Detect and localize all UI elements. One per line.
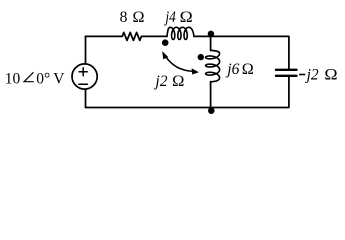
svg-text:j2: j2: [153, 73, 167, 90]
svg-text:j2: j2: [305, 67, 319, 84]
svg-text:j6: j6: [225, 61, 239, 78]
svg-text:Ω: Ω: [180, 9, 193, 26]
svg-text:Ω: Ω: [172, 73, 184, 90]
svg-text:V: V: [53, 71, 65, 88]
svg-text:0°: 0°: [36, 71, 50, 88]
svg-text:Ω: Ω: [242, 61, 254, 78]
svg-text:8: 8: [120, 9, 128, 26]
svg-text:j4: j4: [164, 9, 176, 26]
svg-text:Ω: Ω: [324, 67, 337, 84]
svg-text:10: 10: [5, 71, 21, 88]
svg-text:Ω: Ω: [133, 9, 145, 26]
